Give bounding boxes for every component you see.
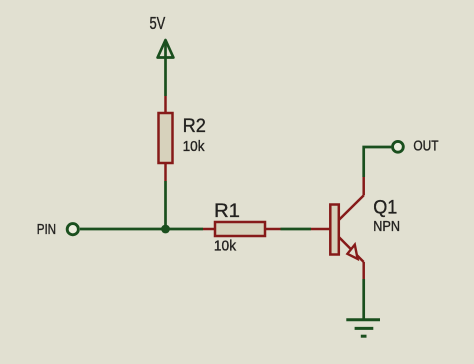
power symbol 5V	[158, 40, 174, 58]
wire	[164, 181, 167, 229]
terminal OUT	[393, 141, 404, 152]
terminal PIN	[67, 224, 78, 235]
ground	[346, 320, 380, 336]
svg-text:10k: 10k	[214, 238, 237, 254]
wire	[281, 228, 312, 231]
resistor R1	[203, 222, 281, 236]
svg-text:Q1: Q1	[373, 196, 397, 218]
wire	[80, 228, 166, 231]
wire	[362, 279, 365, 320]
junction node	[161, 225, 170, 234]
svg-text:PIN: PIN	[37, 222, 56, 238]
svg-text:5V: 5V	[150, 13, 166, 33]
resistor R2	[159, 96, 173, 181]
wire	[364, 147, 392, 177]
transistor Q1	[311, 177, 364, 279]
svg-text:R1: R1	[214, 200, 240, 222]
svg-text:OUT: OUT	[413, 139, 438, 155]
svg-text:10k: 10k	[183, 139, 206, 155]
wire	[164, 58, 167, 97]
svg-text:R2: R2	[183, 115, 206, 137]
wire	[166, 228, 204, 231]
svg-text:NPN: NPN	[373, 219, 400, 235]
